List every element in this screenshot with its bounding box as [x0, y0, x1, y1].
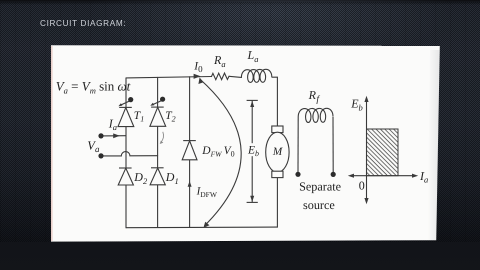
diode D2 [118, 168, 133, 185]
label Eb motor [245, 143, 259, 156]
wire La to right corner [272, 77, 277, 126]
Eb dimension line [247, 100, 258, 202]
svg-text:source: source [303, 198, 335, 212]
photo right shading [428, 50, 440, 240]
thyristor T2 [150, 97, 166, 127]
field winding Rf [298, 108, 333, 172]
wire input top [101, 135, 126, 137]
motor bottom brush block [272, 171, 283, 177]
wire between Ra and La [229, 76, 241, 77]
wire bottom rail [126, 226, 277, 229]
wire DFW branch [189, 77, 191, 227]
graph horizontal axis [348, 174, 418, 178]
resistor Ra [212, 73, 230, 80]
graph hatched area [367, 129, 399, 176]
current arrow I0 [194, 74, 201, 79]
wire left branch [125, 78, 127, 228]
motor armature M [266, 132, 289, 172]
photo white background [51, 45, 440, 241]
svg-text:Separate: Separate [299, 180, 341, 194]
field terminal dot right [331, 172, 336, 177]
source terminal dot bottom [98, 153, 103, 158]
diode D1 [150, 168, 165, 185]
current arrow IDFW [188, 181, 192, 187]
source terminal dot top [98, 133, 103, 138]
graph vertical axis [364, 96, 368, 204]
V0 curve arrow [198, 78, 241, 228]
diode DFW [182, 141, 197, 160]
motor top brush block [272, 126, 283, 133]
inductor La [241, 69, 271, 82]
photo left pink edge [51, 46, 53, 241]
wire top rail left [126, 77, 212, 78]
wire right branch [157, 77, 159, 227]
field terminal dot left [295, 172, 300, 177]
svg-text:0: 0 [359, 178, 365, 192]
current arrow Ia input [113, 133, 120, 138]
wire input bottom with hop [101, 152, 158, 156]
gate current ig squiggle [160, 132, 164, 144]
svg-text:M: M [272, 146, 283, 158]
thyristor T1 [118, 97, 134, 127]
wire right vertical below motor [276, 178, 278, 228]
